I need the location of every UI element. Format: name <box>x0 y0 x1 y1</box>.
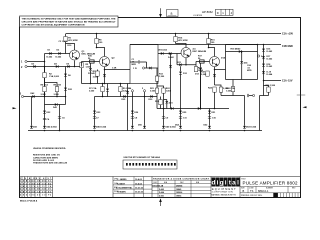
svg-text:D22: D22 <box>47 112 52 114</box>
capacitor C9 <box>162 117 165 118</box>
diode D45 <box>55 103 57 106</box>
resistor R21 <box>155 88 158 93</box>
junction rail r15 <box>175 33 177 35</box>
wire mid column <box>156 87 158 109</box>
right border tick <box>297 94 305 96</box>
junction e2 <box>104 69 106 71</box>
svg-text:C5: C5 <box>62 118 66 120</box>
svg-text:4: 4 <box>231 11 233 15</box>
resistor R7 <box>101 87 104 92</box>
junction bus b6 <box>180 130 182 132</box>
sheet cells <box>216 9 234 15</box>
svg-text:D25: D25 <box>122 99 127 101</box>
resistor R14 <box>194 67 197 72</box>
wire r26 <box>232 80 234 96</box>
wire r4 bottom <box>45 92 58 97</box>
resistor R12 <box>159 100 162 105</box>
svg-text:MAYNARD. MASSACHUSETTS: MAYNARD. MASSACHUSETTS <box>212 194 237 197</box>
svg-text:D40: D40 <box>237 48 242 51</box>
svg-text:D26: D26 <box>134 112 139 114</box>
junction bus b3 <box>94 130 96 132</box>
svg-text:D10: D10 <box>68 45 73 47</box>
svg-text:D14: D14 <box>221 57 226 60</box>
svg-text:10-21-63: 10-21-63 <box>135 188 144 190</box>
wire out2 bottom <box>226 70 258 80</box>
svg-text:UNLESS OTHERWISE INDICATED:: UNLESS OTHERWISE INDICATED: <box>33 147 66 150</box>
wire stack a <box>44 105 46 126</box>
svg-text:EQUIPMENT: EQUIPMENT <box>212 188 237 191</box>
wire r12 <box>160 97 162 109</box>
diode D6 <box>64 74 67 77</box>
diode D52 <box>208 126 211 129</box>
svg-text:R24: R24 <box>208 86 213 89</box>
svg-text:D-662: D-662 <box>159 189 164 191</box>
diode D51 <box>208 111 211 114</box>
svg-text:5 B F 3158 1A 315 E3: 5 B F 3158 1A 315 E3 <box>20 190 51 193</box>
svg-text:1N3606: 1N3606 <box>176 192 182 194</box>
wire Q4 base <box>196 61 210 63</box>
junction bus b2 <box>59 130 61 132</box>
resistor R25 <box>219 87 222 92</box>
svg-text:TS: TS <box>250 189 254 193</box>
svg-text:MFD: MFD <box>247 70 252 72</box>
left table smudge <box>20 178 52 197</box>
junction bus b8 <box>244 130 246 132</box>
svg-text:1,500: 1,500 <box>166 91 172 93</box>
bottom -15V bus <box>28 130 262 132</box>
svg-text:1: 1 <box>21 61 23 64</box>
capacitor C5 <box>58 117 61 118</box>
resistor R8 <box>95 39 98 44</box>
svg-text:56: 56 <box>198 58 201 60</box>
svg-text:D42: D42 <box>31 92 36 95</box>
wire stack e <box>163 109 165 126</box>
diode D8 <box>161 52 163 55</box>
note unless otherwise <box>33 147 68 165</box>
svg-text:1,500: 1,500 <box>226 91 232 93</box>
transistor Q4 <box>210 57 220 67</box>
svg-text:R26 C1A: R26 C1A <box>226 87 235 90</box>
svg-text:D: D <box>217 11 219 15</box>
svg-text:4.5: 4.5 <box>193 47 197 50</box>
terminal out2 <box>258 55 260 57</box>
svg-text:CAPACITORS ARE MMFD: CAPACITORS ARE MMFD <box>33 156 59 159</box>
wire d33 column <box>170 54 172 109</box>
diode D12 <box>179 72 182 75</box>
wire term2 <box>27 66 65 68</box>
terminal 1 <box>25 60 27 62</box>
capacitor C4 <box>43 118 46 119</box>
svg-text:D13: D13 <box>195 74 200 76</box>
title block borders <box>240 177 301 198</box>
svg-text:D3: D3 <box>32 64 36 66</box>
diode D48 <box>131 126 134 129</box>
wire r5 down <box>81 62 83 84</box>
wire emitter Q3 <box>185 58 187 65</box>
wire mid link line <box>95 96 158 98</box>
left revision table <box>20 177 114 198</box>
svg-text:d: d <box>211 179 215 186</box>
svg-text:A. BLUMENTHAL: A. BLUMENTHAL <box>116 187 133 190</box>
svg-text:LOCATION: LOCATION <box>193 14 203 17</box>
diode D18 <box>262 64 265 67</box>
diode D27 <box>171 107 173 110</box>
junction input1 <box>44 61 46 63</box>
diode D7 <box>89 68 92 71</box>
svg-text:TRANSISTORS ARE DEC2894-2B: TRANSISTORS ARE DEC2894-2B <box>33 162 68 165</box>
resistor R1 <box>64 37 67 42</box>
wire emitter Q1 <box>74 61 76 67</box>
junction bus b4 <box>132 130 134 132</box>
diode D30 <box>150 95 152 98</box>
svg-text:THIS SCHEMATIC IS FURNISHED ON: THIS SCHEMATIC IS FURNISHED ONLY FOR TES… <box>22 18 117 21</box>
output network box T1 <box>130 45 158 84</box>
wire r9 <box>119 84 121 97</box>
svg-text:10-4-63: 10-4-63 <box>135 182 143 185</box>
wire e4 right <box>215 69 226 71</box>
diode D16 <box>262 49 265 52</box>
junction q3base <box>170 53 172 55</box>
svg-text:Q2: Q2 <box>112 58 116 60</box>
junction lc <box>120 83 122 85</box>
signature names <box>0 0 1 1</box>
svg-text:C4: C4 <box>47 118 51 121</box>
notice box <box>20 16 119 27</box>
svg-text:i: i <box>225 179 227 186</box>
diode D44 <box>43 126 46 129</box>
bottom band top line <box>20 176 301 178</box>
svg-text:g: g <box>220 179 224 186</box>
resistor R13 <box>155 76 158 81</box>
border frame <box>20 18 301 198</box>
wire c1 <box>130 62 147 68</box>
svg-text:1N914: 1N914 <box>176 195 181 198</box>
wire term5 drop <box>144 92 146 97</box>
svg-text:8802-0-1: 8802-0-1 <box>258 189 269 193</box>
svg-text:470,1/2W: 470,1/2W <box>68 39 78 42</box>
svg-text:DIODES ARE D-662: DIODES ARE D-662 <box>33 159 54 162</box>
junction ma <box>102 96 104 98</box>
wire stack c <box>94 97 96 126</box>
resistor R11 <box>96 71 99 76</box>
junction lb <box>104 83 106 85</box>
svg-text:R7 C1A: R7 C1A <box>89 87 97 90</box>
diode D17 <box>262 56 265 59</box>
svg-text:PULSE AMPLIFIER 8802: PULSE AMPLIFIER 8802 <box>243 181 298 186</box>
diode D25 <box>123 95 125 98</box>
junction bus b5 <box>163 130 165 132</box>
svg-text:D23: D23 <box>97 112 102 114</box>
wire d24 column <box>127 84 129 131</box>
wire Q2 collector <box>97 48 105 57</box>
diode D3 <box>33 65 35 68</box>
svg-text:D32: D32 <box>68 89 73 91</box>
svg-text:1 Ω: 1 Ω <box>133 68 137 70</box>
wire out2 left col <box>225 45 227 70</box>
wire emitter link Q3 <box>177 64 196 66</box>
svg-text:C1B GND: C1B GND <box>282 45 293 48</box>
svg-text:5: 5 <box>142 88 144 90</box>
resistor R9 <box>119 87 122 92</box>
svg-text:D2: D2 <box>57 49 61 51</box>
junction rail r16 <box>208 33 210 35</box>
svg-text:10-4-63: 10-4-63 <box>135 178 143 181</box>
svg-text:100: 100 <box>99 42 103 44</box>
svg-text:HP 8062: HP 8062 <box>202 10 213 14</box>
wire d13 <box>200 63 202 108</box>
-15V stub <box>264 80 282 82</box>
wire right col down <box>260 96 269 131</box>
wire base line Q3 <box>158 53 181 55</box>
terminal 4 <box>131 90 133 92</box>
svg-text:l: l <box>237 179 239 186</box>
junction bus b7 <box>209 130 211 132</box>
resistor R18 <box>206 71 209 76</box>
svg-text:D-664: D-664 <box>159 191 164 194</box>
svg-text:3,000: 3,000 <box>201 74 207 76</box>
svg-text:D4: D4 <box>54 63 58 66</box>
diode D40 <box>239 50 241 53</box>
svg-text:D-662: D-662 <box>267 59 274 61</box>
svg-text:D-662: D-662 <box>168 57 175 59</box>
diode D23 <box>93 111 96 114</box>
junction d40 <box>241 51 243 53</box>
svg-text:3: 3 <box>20 92 22 95</box>
svg-text:D31: D31 <box>169 103 174 105</box>
junction c4 <box>208 47 210 49</box>
wire term1 <box>27 61 44 63</box>
resistor R16 <box>207 39 210 44</box>
wire r20 link <box>264 86 269 96</box>
svg-text:D45 D-664: D45 D-664 <box>96 126 107 129</box>
wire q4 d13 down <box>200 68 202 109</box>
svg-text:NUMBER: NUMBER <box>266 187 274 189</box>
wire stack b col <box>59 105 61 131</box>
wire stack g <box>209 109 211 126</box>
diode D15 <box>213 74 216 77</box>
junction term2 <box>44 66 46 68</box>
diode D54 <box>179 126 182 129</box>
svg-text:1 8 B 2041 1B 604 X1: 1 8 B 2041 1B 604 X1 <box>20 180 51 183</box>
wire d12 <box>180 66 182 78</box>
svg-text:i: i <box>217 179 219 186</box>
wire diode ladder top <box>263 45 265 81</box>
resistor R22 <box>162 88 165 93</box>
svg-text:C10: C10 <box>212 118 217 120</box>
wire Q2 base <box>82 61 100 63</box>
diode D4 <box>56 65 58 68</box>
diode D24 <box>149 67 151 70</box>
svg-text:D54: D54 <box>175 123 180 126</box>
left registration arrow <box>13 107 17 109</box>
wire long link <box>157 108 229 110</box>
junction t3b <box>56 96 58 98</box>
wire d40 line <box>226 51 258 53</box>
svg-text:H. MANN: H. MANN <box>117 191 126 194</box>
wire term3 <box>24 96 66 98</box>
signature table <box>113 177 152 198</box>
terminal 5 <box>143 90 145 92</box>
svg-text:100: 100 <box>211 42 215 44</box>
junction c2 <box>96 47 98 49</box>
svg-text:D50: D50 <box>138 124 143 126</box>
svg-text:2: 2 <box>21 66 23 69</box>
wire mid link <box>45 97 66 105</box>
svg-text:D12: D12 <box>183 73 188 75</box>
wire stack d <box>131 92 133 126</box>
diode D13 <box>199 68 202 71</box>
wire Q2 emitter column <box>104 67 106 84</box>
transistor Q3 <box>181 48 191 58</box>
resistor R20 <box>267 87 270 92</box>
svg-text:470,1/2W: 470,1/2W <box>178 39 188 42</box>
wire r2-r4 <box>45 67 58 87</box>
svg-text:D6: D6 <box>68 75 72 77</box>
svg-text:D-662: D-662 <box>267 51 274 53</box>
svg-text:3,000: 3,000 <box>89 91 95 93</box>
right registration arrow <box>303 106 307 108</box>
junction ld <box>90 83 92 85</box>
svg-text:3,000: 3,000 <box>41 94 47 96</box>
svg-text:C1A,3,000: C1A,3,000 <box>49 75 60 78</box>
svg-text:C24: C24 <box>247 64 252 67</box>
wire out1 <box>145 67 158 69</box>
wire term out2 <box>257 55 259 57</box>
diode D49 <box>162 126 165 129</box>
diode D55 <box>179 111 182 114</box>
svg-text:D-664: D-664 <box>267 73 274 76</box>
svg-text:3,000: 3,000 <box>54 94 60 96</box>
svg-text:1: 1 <box>222 11 224 15</box>
terminal tp2 <box>253 94 255 96</box>
diode D31 <box>165 101 168 104</box>
terminal out1 <box>142 67 144 69</box>
wire emitter link <box>66 66 82 68</box>
gnd rail <box>130 44 281 46</box>
svg-text:1N645: 1N645 <box>176 188 181 191</box>
svg-text:10-21-63: 10-21-63 <box>135 192 144 194</box>
wire R8 column <box>96 34 98 48</box>
svg-text:4: 4 <box>130 87 132 90</box>
svg-text:a: a <box>171 12 173 16</box>
wire Q1 collector <box>66 44 75 51</box>
junction link2 <box>214 108 216 110</box>
diode D41 <box>240 61 243 64</box>
wire d7 <box>90 63 92 83</box>
wire r7 <box>102 84 104 97</box>
wire e2 to box <box>105 69 131 71</box>
svg-text:C3 1,500: C3 1,500 <box>59 41 68 43</box>
svg-text:CIRCUITS ARE PROPRIETARY IN NA: CIRCUITS ARE PROPRIETARY IN NATURE AND S… <box>22 21 117 24</box>
resistor R24 <box>213 87 216 92</box>
junction e3 <box>185 64 187 66</box>
wire c24 link <box>221 96 245 126</box>
svg-text:D-662: D-662 <box>267 66 274 68</box>
svg-text:D45: D45 <box>53 106 58 109</box>
svg-text:8802-0-1 PULSE A: 8802-0-1 PULSE A <box>20 200 38 203</box>
wire R1 column <box>65 34 67 54</box>
terminal 2 <box>25 65 27 67</box>
svg-text:USE THE ETCH BOARD OF THE 4604: USE THE ETCH BOARD OF THE 4604 <box>124 156 161 159</box>
wire Q3 collector <box>176 44 187 48</box>
svg-text:2 8 C 3188 6A 318 B2: 2 8 C 3188 6A 318 B2 <box>20 182 51 185</box>
diode D11 <box>179 63 181 66</box>
svg-text:1,500: 1,500 <box>159 76 165 78</box>
diode D42 <box>32 95 34 98</box>
svg-text:3,000: 3,000 <box>150 91 156 93</box>
svg-text:C7: C7 <box>96 118 100 120</box>
wire bias column low <box>65 67 67 97</box>
wire out2 vert <box>257 45 259 80</box>
diode D24b <box>126 91 129 94</box>
wire r13 <box>156 68 158 87</box>
svg-text:2N2894: 2N2894 <box>176 184 182 187</box>
svg-text:DEC 2894-2B: DEC 2894-2B <box>193 50 207 53</box>
wire d21 <box>107 84 109 97</box>
diode D28 <box>198 107 200 110</box>
svg-text:D-662: D-662 <box>56 57 63 59</box>
resistor R10 <box>90 60 95 63</box>
diode D10 <box>169 52 171 55</box>
wire out2 top <box>226 44 258 46</box>
wire d31 <box>164 100 167 109</box>
conversion chart <box>152 177 211 198</box>
junction ladder <box>263 44 265 46</box>
resistor R17b <box>200 60 205 63</box>
wire q3 bias col <box>176 54 178 65</box>
svg-text:D44 D-664: D44 D-664 <box>47 126 58 129</box>
wire R15 column <box>175 34 177 44</box>
diode D5 <box>67 65 69 68</box>
svg-text:MFD: MFD <box>132 64 137 66</box>
diode D33 <box>169 65 172 68</box>
svg-text:REV.: REV. <box>292 187 296 189</box>
capacitor C10 <box>208 117 211 118</box>
capacitor C25 <box>247 94 248 97</box>
wire d41 <box>241 52 243 80</box>
capacitor C7 <box>93 117 96 118</box>
DEC digital logo <box>211 178 239 197</box>
diode D53 <box>243 126 246 129</box>
resistor R15 <box>174 37 177 42</box>
wire c25 stub <box>249 95 253 97</box>
diode D26 <box>131 111 134 114</box>
wire Q4 collector <box>209 48 215 57</box>
svg-text:DEC2894-2B: DEC2894-2B <box>153 184 164 187</box>
svg-text:D52: D52 <box>204 124 209 126</box>
diode D50 <box>143 126 146 129</box>
svg-text:D-662: D-662 <box>47 57 54 59</box>
resistor R6 <box>55 87 58 92</box>
diode D1 <box>49 52 51 55</box>
svg-text:SIZE: SIZE <box>241 187 245 189</box>
junction t3a <box>44 96 46 98</box>
junction t3c <box>65 96 67 98</box>
svg-text:C8: C8 <box>135 118 139 120</box>
svg-text:D51: D51 <box>212 112 217 114</box>
wire r24 r25 <box>215 85 222 109</box>
wire link line left <box>82 83 131 85</box>
capacitor C8 <box>131 117 134 118</box>
wire r11 stub <box>97 70 99 84</box>
title fields <box>241 178 298 197</box>
svg-text:R. BEST: R. BEST <box>117 183 126 185</box>
capacitor C1 <box>138 60 139 63</box>
svg-text:6 8 G 1193 5C 119 F2: 6 8 G 1193 5C 119 F2 <box>20 194 51 196</box>
top registration arrow <box>159 9 162 18</box>
transistor Q1 <box>70 50 80 60</box>
wire stack h <box>180 78 182 126</box>
